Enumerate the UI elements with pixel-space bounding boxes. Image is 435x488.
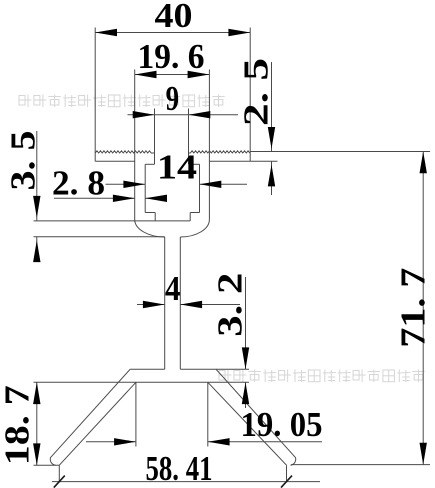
wire dim line 14 right seg (200, 183, 248, 185)
wire channel outer wall left + 19.6 ext + bottom arc (135, 70, 165, 238)
node arrow 40 left (95, 29, 117, 36)
wire dim line 3.2 lower (245, 382, 247, 408)
svg-text:19. 05: 19. 05 (241, 405, 323, 444)
node arrow 2.5 bottom (268, 165, 275, 187)
svg-text:58. 41: 58. 41 (146, 449, 213, 488)
node arrow 3.2 top (242, 347, 249, 369)
svg-text:14: 14 (157, 148, 197, 187)
wire dim line 2.5 upper (271, 62, 273, 152)
wire dim line 4 left seg (137, 304, 165, 306)
node arrow 9 left (133, 111, 155, 118)
node arrow 3.5 top (33, 196, 40, 218)
node arrow 3.2 bottom (242, 382, 249, 404)
wire dim line 9 (128, 114, 239, 116)
svg-text:40: 40 (155, 0, 193, 35)
wire 2.5 ext bottom (250, 160, 277, 162)
wire serrated top right (189, 151, 251, 153)
wire dim line 71.7 (422, 152, 424, 465)
node oblique tick 58.41 right (281, 476, 292, 488)
svg-text:4: 4 (165, 269, 181, 308)
svg-text:2. 8: 2. 8 (52, 164, 105, 203)
svg-text:19. 6: 19. 6 (138, 37, 205, 76)
svg-text:3. 5: 3. 5 (3, 131, 42, 191)
svg-text:2. 5: 2. 5 (237, 58, 276, 126)
svg-text:3. 2: 3. 2 (210, 273, 249, 337)
wire dim line 19.05 right seg (208, 441, 322, 443)
wire plate right edge + 40 ext right (249, 28, 251, 162)
node arrow 14 left (123, 181, 145, 188)
wire plate left edge + 40 ext left (94, 28, 96, 162)
wire foot riser right (286, 465, 288, 481)
node arrow 19.6 right (188, 71, 210, 78)
node arrow 18.7 bottom (33, 443, 40, 465)
wire 71.7 bottom ext (291, 464, 430, 466)
wire inner slope right (208, 382, 287, 465)
svg-text:71. 7: 71. 7 (394, 268, 433, 348)
wire dim line 3.5 lower (36, 237, 38, 262)
node arrow 71.7 bottom (420, 443, 427, 465)
wire 19.05 ext left (135, 382, 137, 446)
svg-text:9: 9 (166, 79, 180, 118)
node arrow 19.05 right (208, 438, 230, 445)
wire dim line 19.05 left seg (86, 441, 136, 443)
wire dim line 2.8 right seg (145, 197, 167, 199)
wire slot opening wall left + 9 ext (154, 109, 156, 165)
wire base inner top + 18.7 ext + 3.2 ext lower (34, 381, 250, 383)
wire foot top left + 18.7 bottom ext (34, 464, 60, 466)
node arrow 40 right (228, 29, 250, 36)
wire base top right + 3.2 ext upper (180, 368, 249, 370)
wire dim line 18.7 (36, 382, 38, 465)
node arrow 4 left (143, 301, 165, 308)
wire dim line 3.5 upper (36, 131, 38, 221)
wire dim line 2.8 left seg (54, 197, 135, 199)
wire cavity lower wall right (189, 213, 191, 221)
wire dim line 4 right seg (180, 304, 240, 306)
wire plate bottom left (95, 160, 135, 162)
wire dim line 2.5 lower (271, 161, 273, 195)
wire inner slope left (59, 382, 136, 465)
wire slot step left (145, 163, 154, 165)
wire dim line 14 left seg (106, 183, 146, 185)
wire cavity bottom + 3.5 ext line upper (34, 220, 191, 222)
node arrow 19.05 left (114, 438, 136, 445)
watermark row 2 (219, 370, 425, 383)
svg-text:18. 7: 18. 7 (0, 385, 37, 465)
wire cavity wall left (144, 164, 146, 212)
node arrow 71.7 top (420, 152, 427, 174)
wire outer slope left with rounded foot tip (50, 369, 130, 465)
wire dim line 40 (95, 32, 250, 34)
wire cavity lower step left (145, 212, 155, 214)
node arrow 9 right (189, 111, 211, 118)
wire foot riser left (58, 465, 60, 481)
wire base bottom + 58.41 dim line (52, 481, 320, 483)
wire slot opening wall right + 9 ext (188, 109, 190, 165)
wire channel outer wall right + 19.6 ext + bottom arc (180, 70, 209, 238)
watermark row 1 (19, 95, 225, 108)
node arrow 3.5 bottom (33, 240, 40, 262)
node arrow 2.8 left (113, 195, 135, 202)
wire 2.5 ext top + 71.7 top ext (250, 151, 430, 153)
wire dim line 19.6 (135, 74, 210, 76)
wire dim line 3.2 upper (245, 277, 247, 369)
wire base top left (130, 368, 165, 370)
node arrow 19.6 left (135, 71, 157, 78)
wire cavity wall right (199, 164, 201, 212)
node arrow 18.7 top (33, 382, 40, 404)
node oblique tick 58.41 left (54, 476, 65, 488)
wire slot step right (189, 163, 200, 165)
node arrow 2.5 top (268, 127, 275, 149)
wire cavity lower step right (190, 212, 199, 214)
node arrow 14 right (200, 181, 222, 188)
wire outer slope right with rounded foot tip (216, 369, 296, 465)
wire 19.05 ext right (207, 382, 209, 446)
wire serrated top left (95, 151, 154, 153)
wire stem left edge (164, 237, 166, 369)
wire cavity lower wall left (154, 213, 156, 221)
wire 3.5 ext line lower + channel outer bottom (34, 236, 165, 238)
wire plate bottom right (209, 160, 250, 162)
node arrow 4 right (180, 301, 202, 308)
wire stem right edge (179, 237, 181, 369)
node arrow 2.8 right (145, 195, 167, 202)
